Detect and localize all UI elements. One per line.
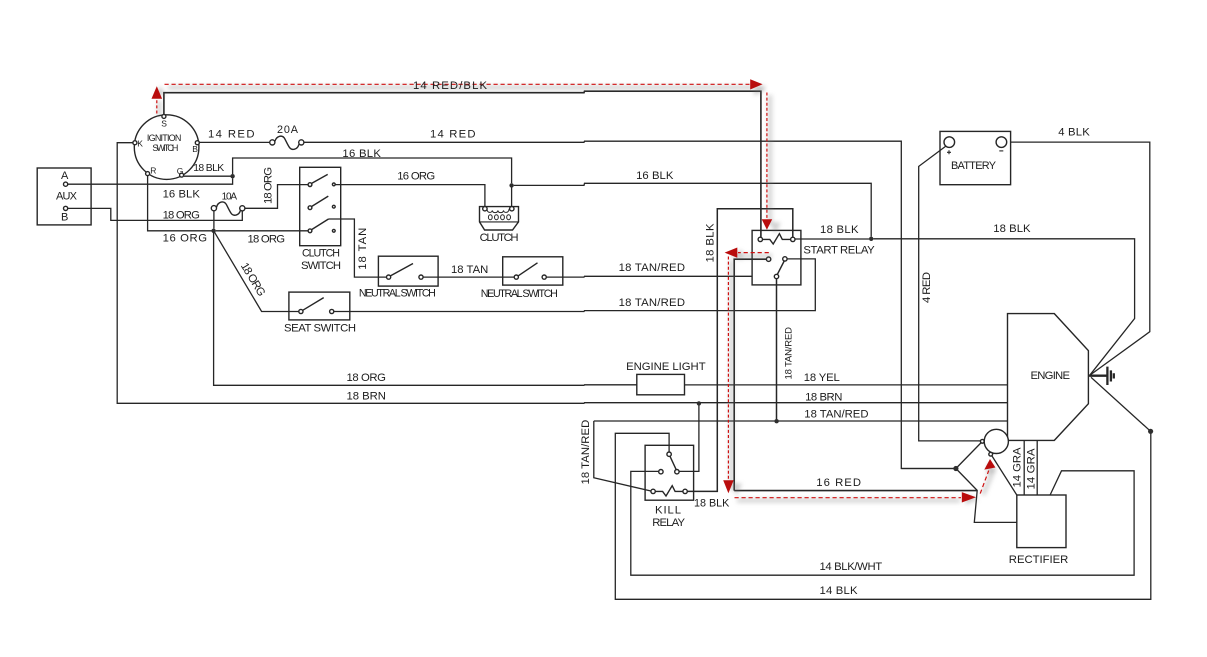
svg-text:18 BRN: 18 BRN bbox=[347, 391, 386, 403]
junction dot C (16 BLK / clutch connector) bbox=[509, 183, 513, 187]
svg-text:18 BRN: 18 BRN bbox=[805, 391, 842, 403]
svg-text:16 ORG: 16 ORG bbox=[397, 171, 435, 183]
junction dot G (starter / 14 RED / rectifier) bbox=[953, 466, 958, 471]
svg-text:18 ORG: 18 ORG bbox=[163, 209, 200, 221]
junction dot H (14 BLK / 4 BLK / engine) bbox=[1148, 429, 1153, 434]
start relay box bbox=[752, 230, 801, 285]
svg-text:16 ORG: 16 ORG bbox=[163, 233, 208, 245]
svg-text:18 TAN: 18 TAN bbox=[451, 264, 488, 276]
svg-text:BATTERY: BATTERY bbox=[951, 160, 997, 172]
clutch switch pole 1 bbox=[308, 183, 312, 187]
svg-text:B: B bbox=[192, 144, 198, 154]
svg-text:18 BLK: 18 BLK bbox=[820, 224, 859, 236]
svg-text:14 BLK: 14 BLK bbox=[820, 585, 858, 597]
svg-text:18 ORG: 18 ORG bbox=[248, 234, 286, 246]
svg-text:S: S bbox=[161, 119, 167, 129]
clutch connector pins bbox=[488, 215, 492, 220]
svg-text:RECTIFIER: RECTIFIER bbox=[1009, 554, 1069, 566]
svg-text:IGNITION: IGNITION bbox=[147, 133, 182, 143]
red arrowhead up-right at starter terminal bbox=[984, 459, 995, 470]
neutral switch 1 box bbox=[378, 256, 438, 286]
red arrowhead down into start relay coil bbox=[762, 219, 773, 230]
clutch connector terminals bbox=[483, 207, 487, 211]
svg-text:18 BLK: 18 BLK bbox=[705, 223, 717, 262]
wire from AUX A terminal to junction A bbox=[68, 178, 233, 184]
neutral switch 2 box bbox=[503, 257, 563, 285]
wire from 18 BRN junction down to kill relay contact bbox=[679, 403, 699, 471]
engine body bbox=[1008, 314, 1089, 441]
svg-text:SWITCH: SWITCH bbox=[301, 260, 341, 272]
wire from ignition K terminal down to 18 BRN row bbox=[117, 143, 1007, 404]
AUX terminal A bbox=[64, 182, 68, 186]
wire 18 ORG: 10A fuse right to clutch switch 1 bbox=[245, 185, 308, 209]
neutral switch 1 contacts bbox=[387, 275, 391, 279]
svg-text:16 BLK: 16 BLK bbox=[636, 170, 674, 182]
wire 18 TAN: clutch switch 3 wiper to neutral switch 1 bbox=[329, 219, 387, 277]
ground symbol at engine point bbox=[1089, 367, 1114, 385]
wire 18 ORG: junction B column down to engine light bbox=[214, 231, 637, 385]
fuse 20A body bbox=[270, 140, 275, 145]
wire 16 RED row to starter diagonal bbox=[734, 490, 977, 492]
red trace: down along 18 BLK to 16 RED row bbox=[727, 257, 729, 480]
svg-text:NEUTRAL SWITCH: NEUTRAL SWITCH bbox=[359, 288, 436, 300]
svg-text:14 RED: 14 RED bbox=[430, 129, 476, 141]
red arrowhead left out of start relay bbox=[725, 248, 738, 258]
svg-text:20A: 20A bbox=[277, 124, 299, 136]
wire S-terminal to start-relay coil (14 RED/BLK net) bbox=[164, 91, 761, 237]
ignition terminal B bbox=[195, 141, 199, 145]
svg-text:14 GRA: 14 GRA bbox=[1026, 448, 1038, 489]
svg-text:14 BLK/WHT: 14 BLK/WHT bbox=[820, 561, 883, 573]
clutch connector body bbox=[480, 207, 519, 230]
wire from ignition R terminal to 16 ORG row bbox=[148, 176, 212, 231]
engine light box bbox=[637, 374, 685, 394]
wire 14 BLK: kill relay top terminal around to engine junction bbox=[615, 433, 1151, 599]
junction dot F (18 TAN/RED / start relay wiper) bbox=[774, 419, 778, 423]
svg-text:4 BLK: 4 BLK bbox=[1058, 127, 1090, 139]
shadow of red trace (soft gray) bbox=[157, 101, 162, 116]
red trace: 14 RED/BLK top run bbox=[165, 83, 750, 85]
svg-text:START RELAY: START RELAY bbox=[803, 244, 875, 256]
svg-text:NEUTRAL SWITCH: NEUTRAL SWITCH bbox=[481, 288, 558, 300]
red arrowhead down at 16 RED row bbox=[723, 480, 734, 493]
red trace: diagonal up to starter terminal bbox=[980, 471, 989, 494]
wire 14 RED: ignition B to fuse 20A to starter junction bbox=[199, 141, 269, 143]
starter terminal upper bbox=[980, 439, 984, 443]
wire: engine junction diagonal to engine point bbox=[1091, 377, 1151, 431]
wire: starter lower terminal to rectifier corner bbox=[992, 456, 1017, 495]
svg-text:ENGINE LIGHT: ENGINE LIGHT bbox=[626, 361, 706, 373]
kill relay box bbox=[645, 445, 694, 500]
svg-text:18 TAN/RED: 18 TAN/RED bbox=[784, 327, 795, 380]
ignition terminal K bbox=[133, 141, 137, 145]
wire 16 BLK: junction A up and right to clutch connector and start relay bbox=[233, 158, 512, 183]
wire 18 TAN/RED: seat switch to start relay switch right terminal bbox=[334, 259, 816, 312]
AUX terminal B bbox=[64, 206, 68, 210]
ignition terminal G bbox=[180, 173, 184, 177]
svg-text:A: A bbox=[61, 170, 69, 182]
AUX connector box bbox=[37, 168, 91, 225]
start relay switch bbox=[766, 257, 770, 261]
svg-text:18 BLK: 18 BLK bbox=[193, 163, 224, 174]
svg-text:18 BLK: 18 BLK bbox=[694, 497, 730, 509]
wire 18 TAN/RED row to engine with drop to kill relay coil bbox=[594, 376, 1089, 491]
wire from ignition G terminal to junction A bbox=[184, 175, 233, 177]
svg-text:4 RED: 4 RED bbox=[921, 272, 933, 303]
svg-text:14 RED: 14 RED bbox=[208, 129, 255, 141]
ignition switch body bbox=[134, 115, 199, 180]
seat switch box bbox=[289, 292, 350, 320]
svg-text:16 RED: 16 RED bbox=[816, 477, 861, 489]
red arrowhead right along 16 RED bbox=[962, 492, 976, 502]
svg-text:KILL: KILL bbox=[655, 505, 681, 517]
junction dot B (16 ORG / 10A fuse / seat switch) bbox=[211, 229, 215, 233]
svg-text:18 TAN/RED: 18 TAN/RED bbox=[804, 408, 868, 420]
svg-text:18 TAN/RED: 18 TAN/RED bbox=[619, 297, 685, 309]
battery positive terminal bbox=[944, 137, 955, 148]
svg-text:18 TAN/RED: 18 TAN/RED bbox=[619, 262, 685, 274]
svg-text:B: B bbox=[61, 211, 68, 223]
svg-text:16 BLK: 16 BLK bbox=[342, 148, 381, 160]
junction dot D (18 BLK / start relay coil) bbox=[869, 237, 873, 241]
red trace: along 16 RED to starter bbox=[735, 497, 962, 499]
svg-text:18 ORG: 18 ORG bbox=[347, 372, 386, 384]
wire 14 BLK/WHT: kill relay contact around to rectifier bbox=[631, 471, 1134, 575]
svg-text:AUX: AUX bbox=[56, 191, 78, 203]
neutral switch 2 contacts bbox=[514, 275, 518, 279]
wire 14 GRA pair: engine to rectifier bbox=[1024, 441, 1037, 495]
svg-text:ENGINE: ENGINE bbox=[1031, 370, 1071, 382]
rectifier box bbox=[1017, 495, 1066, 548]
clutch switch pole 2 bbox=[308, 206, 312, 210]
svg-text:RELAY: RELAY bbox=[652, 517, 685, 529]
wire 18 YEL: engine light to engine bbox=[685, 384, 1008, 386]
svg-text:18 TAN: 18 TAN bbox=[357, 228, 369, 270]
svg-text:10A: 10A bbox=[222, 192, 238, 203]
red trace: out of start relay to the left bbox=[738, 252, 769, 254]
starter motor circle bbox=[984, 429, 1008, 453]
battery box bbox=[940, 131, 1011, 184]
wire 16 ORG: clutch switch 1 contact to clutch connector bbox=[335, 185, 485, 207]
wire 4 BLK: battery negative to engine point bbox=[1011, 142, 1150, 375]
svg-text:18 BLK: 18 BLK bbox=[993, 223, 1031, 235]
junction dot A (16 BLK / AUX A / ignition G) bbox=[230, 174, 234, 178]
svg-text:CLUTCH: CLUTCH bbox=[480, 232, 519, 244]
wire 10A fuse left leg down to junction B bbox=[213, 211, 215, 229]
svg-text:G: G bbox=[177, 166, 184, 176]
ignition terminal S bbox=[162, 114, 166, 118]
svg-text:SEAT SWITCH: SEAT SWITCH bbox=[284, 323, 356, 335]
junction dot E (18 BRN / kill relay) bbox=[697, 401, 701, 405]
svg-text:16 BLK: 16 BLK bbox=[163, 189, 201, 201]
battery negative terminal bbox=[996, 137, 1007, 148]
seat switch contacts bbox=[299, 309, 303, 313]
svg-text:K: K bbox=[137, 139, 143, 149]
start relay coil K1 bbox=[758, 237, 762, 241]
wire 4 RED: battery positive to starter bbox=[919, 146, 981, 441]
red arrowhead right at top of start relay drop bbox=[750, 79, 762, 89]
wire 18 TAN: neutral switch 1 to neutral switch 2 bbox=[423, 276, 514, 278]
wire 18 TAN/RED: start relay wiper down to junction row bbox=[776, 279, 778, 421]
fuse 10A body bbox=[211, 206, 216, 211]
wire from AUX B terminal to 10A fuse bbox=[68, 208, 243, 220]
starter terminal lower bbox=[989, 452, 993, 456]
svg-text:18 YEL: 18 YEL bbox=[804, 372, 840, 384]
clutch switch pole 3 bbox=[308, 229, 312, 233]
svg-text:SWITCH: SWITCH bbox=[152, 143, 178, 153]
ignition terminal R bbox=[146, 172, 150, 176]
red arrowhead up at ignition S bbox=[152, 86, 163, 98]
red trace: down into start relay bbox=[766, 93, 768, 219]
kill relay switch bbox=[667, 452, 671, 456]
wire 18 BLK: start relay coil right, up over and down to kill relay coil bbox=[687, 209, 792, 492]
wire: starter junction diagonals to starter and rectifier bbox=[901, 443, 1017, 522]
red trace: vertical dash at ignition S bbox=[156, 99, 158, 114]
wire from start relay common contact down to 16 RED row bbox=[734, 259, 766, 490]
clutch switch box bbox=[300, 167, 341, 245]
wire 18 ORG: junction B diagonal to seat switch bbox=[215, 232, 299, 311]
wire 18 BLK from start relay coil to engine bbox=[795, 239, 1135, 376]
svg-text:18 ORG: 18 ORG bbox=[263, 167, 275, 204]
svg-text:14 GRA: 14 GRA bbox=[1012, 447, 1024, 487]
wire 18 TAN/RED: neutral switch 2 to start relay box bbox=[546, 275, 752, 278]
kill relay coil K2 bbox=[651, 489, 655, 493]
svg-text:R: R bbox=[150, 165, 156, 175]
wire 16 ORG row junction B to clutch switch 3 bbox=[216, 230, 308, 232]
svg-text:14 RED/BLK: 14 RED/BLK bbox=[413, 80, 487, 92]
svg-text:18 TAN/RED: 18 TAN/RED bbox=[580, 420, 592, 485]
svg-text:CLUTCH: CLUTCH bbox=[302, 248, 340, 260]
